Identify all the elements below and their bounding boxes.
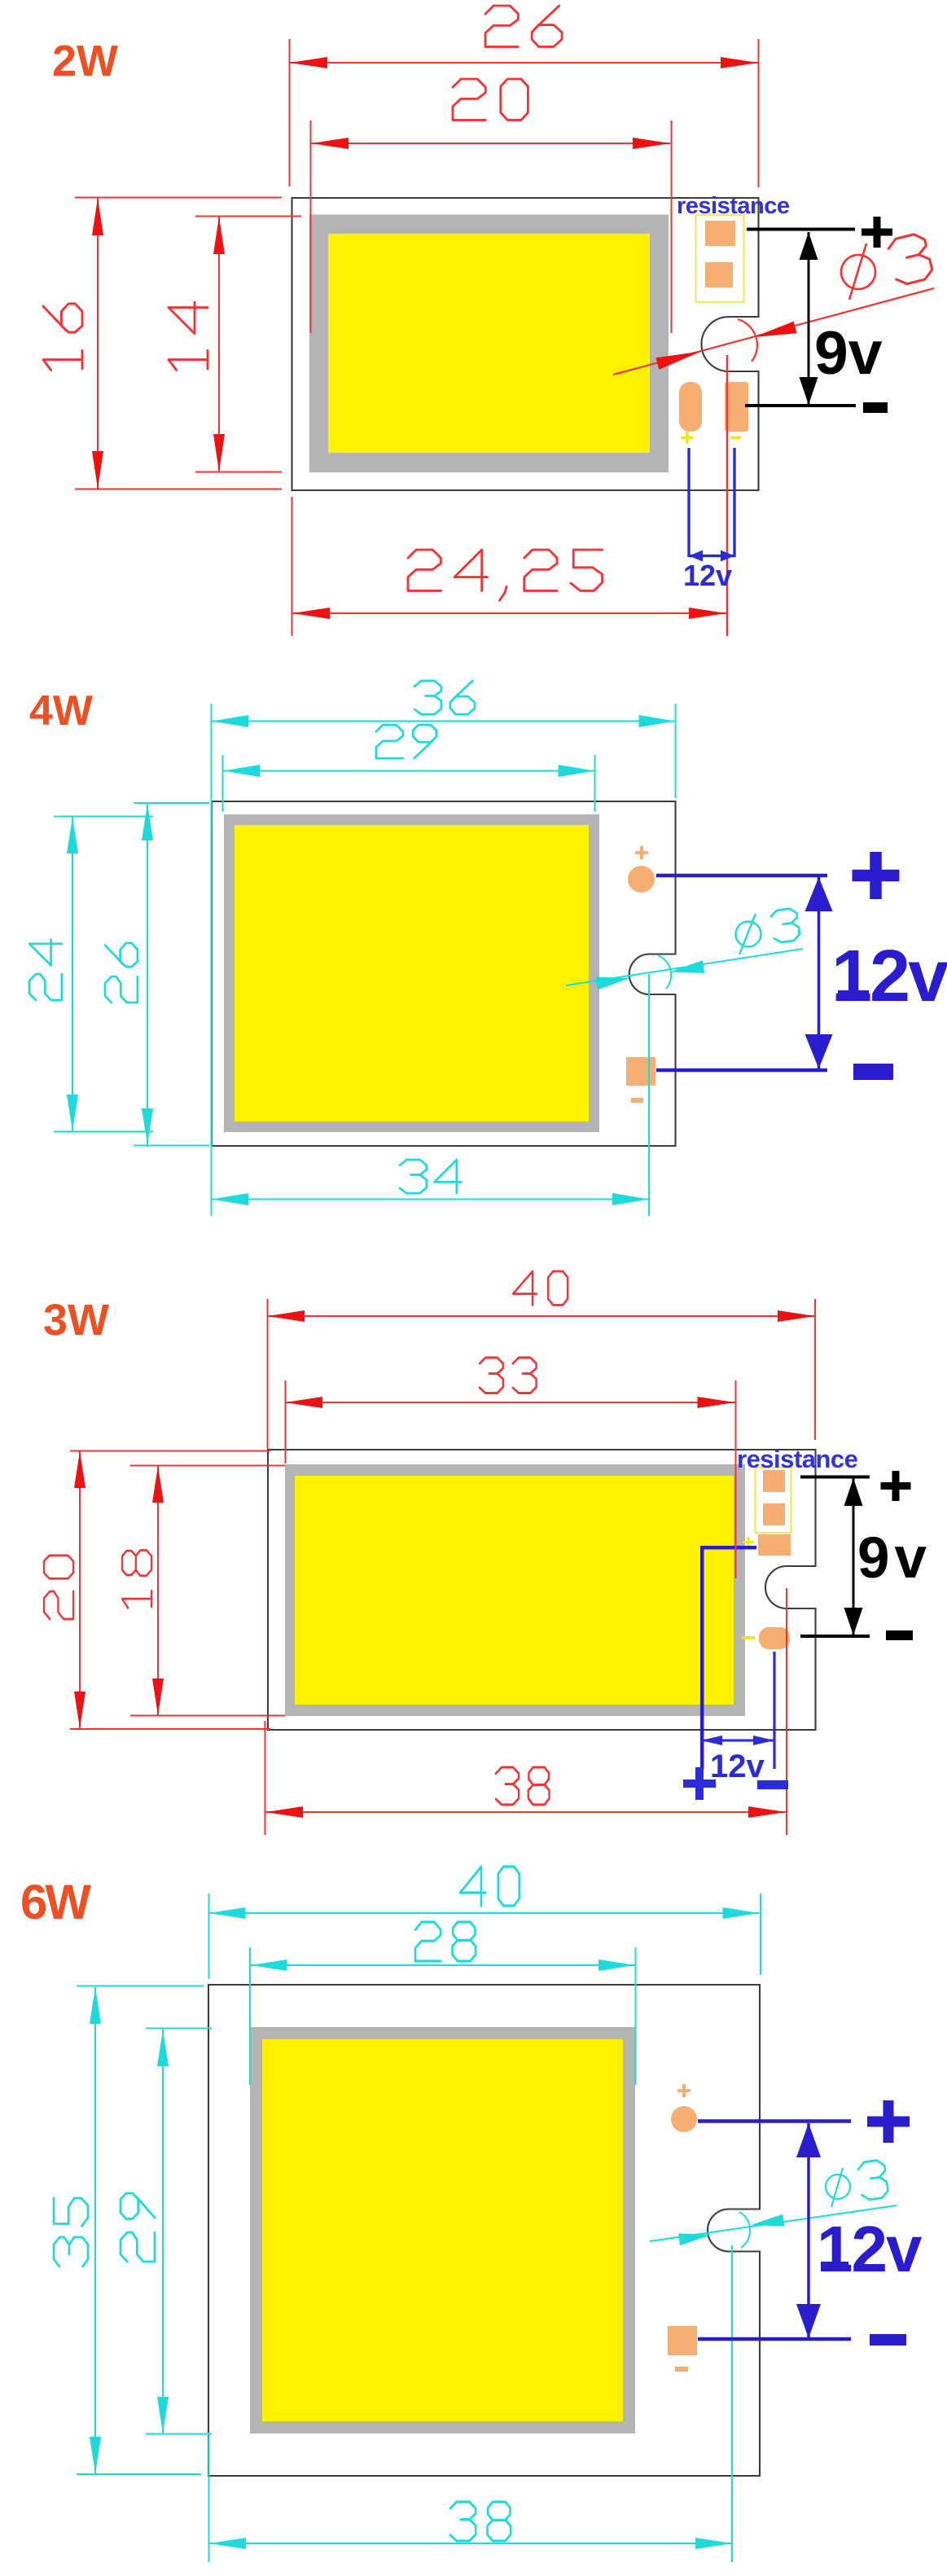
minus symbol 9v — [863, 402, 888, 413]
cathode square pad 6W — [668, 2326, 697, 2355]
svg-text:4W: 4W — [29, 687, 94, 735]
phi3 leader line (cyan) — [566, 949, 803, 985]
dimension 24 line arrows — [67, 817, 78, 854]
wire - (4W) — [656, 1069, 827, 1073]
phi3 red arc on notch — [738, 319, 757, 362]
wire - (6W) — [698, 2337, 851, 2341]
cathode square pad 4W — [626, 1057, 655, 1086]
gray emitting frame 3W — [285, 1464, 745, 1716]
dimension 26 text (4W) — [105, 943, 138, 1003]
dimension 35 line arrows — [90, 1987, 101, 2024]
body outline 6W with notch — [208, 1985, 760, 2476]
dimension 33 text — [480, 1358, 537, 1393]
9v dimension line (3W) arrows — [844, 1478, 863, 1506]
wire + (6W) — [698, 2119, 851, 2123]
9v wire - (3W) — [800, 1635, 870, 1638]
phi3 leader arrow right — [754, 322, 797, 337]
orange + mark 6W — [677, 2084, 691, 2097]
plus symbol 6W — [867, 2100, 910, 2143]
phi3 cyan arc on notch (6W) — [739, 2212, 750, 2248]
resistor pad R2 (3W) — [763, 1503, 785, 1525]
phi3 text (cyan) — [736, 914, 761, 954]
svg-text:resistance: resistance — [677, 193, 790, 219]
yellow + mark — [682, 432, 694, 444]
dimension 26 line arrows — [142, 804, 153, 840]
dimension 34 line — [212, 974, 649, 1216]
dimension 29 text — [376, 725, 436, 758]
resistor pad R1 — [705, 221, 735, 246]
dimension 18 line arrows — [152, 1466, 164, 1503]
dimension 26 line — [134, 803, 209, 1146]
dimension 14 line — [195, 217, 301, 472]
dimension 38 text (6W) — [450, 2502, 511, 2541]
svg-text:3W: 3W — [43, 1296, 109, 1345]
dimension 20 line — [311, 121, 672, 333]
dimension 20 line (3W) — [70, 1451, 270, 1730]
minus symbol 4W — [853, 1064, 893, 1080]
minus symbol (3W) — [886, 1630, 913, 1640]
12v extension lines (blue) — [689, 448, 734, 557]
minus symbol 6W — [870, 2334, 906, 2346]
orange + mark 4W — [635, 846, 648, 859]
9v wire + (3W) — [800, 1476, 870, 1479]
gray emitting frame 2W — [309, 215, 669, 473]
solder pad + (2W 12v) — [679, 382, 702, 432]
12v dimension arrows (3W) — [701, 1740, 774, 1742]
svg-text:12v: 12v — [831, 936, 947, 1017]
yellow phosphor area 3W — [295, 1476, 734, 1705]
dimension 29 line (6W) — [146, 2029, 212, 2434]
9v wire - (black) — [745, 404, 856, 407]
dimension 35 text — [54, 2198, 88, 2267]
resistance pads box 3W — [756, 1468, 791, 1533]
12v dimension line (6W) — [807, 2123, 810, 2338]
yellow + mark (3W) — [743, 1537, 754, 1547]
dimension 24 text — [29, 940, 62, 1000]
phi3 text (6W) — [826, 2168, 850, 2207]
dimension 26 text — [485, 6, 562, 46]
svg-text:6W: 6W — [20, 1875, 91, 1929]
dimension 26 arrows — [290, 57, 327, 68]
dimension 29 text (6W) — [121, 2193, 155, 2262]
dimension 16 text — [43, 304, 82, 371]
dimension 24 line — [54, 817, 153, 1132]
lower oval pad (3W) — [759, 1627, 790, 1649]
resistor pad R2 — [705, 262, 733, 287]
dimension 34 line arrows — [212, 1193, 248, 1205]
phi3 cyan arc on notch — [658, 955, 671, 989]
9v dimension line — [808, 232, 810, 405]
dimension 24,25 arrows — [292, 608, 330, 619]
orange - mark 4W — [631, 1098, 643, 1103]
yellow phosphor area 4W — [235, 825, 589, 1121]
body outline 2W with phi3 notch — [292, 198, 759, 490]
dimension 14 text — [169, 302, 208, 370]
12v dimension line (6W) arrows — [796, 2123, 821, 2157]
12v right extension (3W) — [773, 1652, 775, 1769]
phi3 text (red) — [841, 244, 875, 300]
dimension 20 text — [453, 79, 528, 120]
phi3 leader line (red) — [613, 288, 934, 375]
dimension 28 line arrows — [251, 1959, 287, 1971]
phi3 leader arrow left — [656, 352, 702, 370]
9v dimension line arrows — [800, 232, 818, 260]
svg-text:9v: 9v — [857, 1526, 932, 1591]
dimension 33 line — [286, 1380, 736, 1578]
svg-text:12v: 12v — [710, 1749, 765, 1784]
yellow phosphor area 2W — [328, 234, 650, 453]
dimension 40 line (6W) — [209, 1894, 761, 1979]
blue plus symbol (3W) — [683, 1767, 716, 1800]
body outline 4W with notch — [212, 801, 676, 1146]
dimension 24,25 text — [408, 550, 603, 600]
dimension 28 text — [415, 1922, 476, 1961]
svg-text:12v: 12v — [683, 559, 732, 592]
wire + (4W) — [656, 874, 827, 878]
dimension 40 text (6W) — [460, 1867, 520, 1906]
body outline 3W with notch — [268, 1450, 816, 1730]
svg-text:12v: 12v — [817, 2213, 923, 2285]
svg-text:9v: 9v — [814, 318, 883, 387]
dimension 40 line arrows — [268, 1310, 305, 1322]
dimension 38 line (3W) arrows — [265, 1806, 303, 1818]
dimension 35 line — [77, 1986, 204, 2475]
plus symbol 9v — [862, 217, 892, 248]
dimension 16 arrows — [92, 198, 103, 235]
dimension 38 line (3W) — [265, 1588, 787, 1835]
dimension 20 text (3W) — [44, 1556, 73, 1619]
dimension 38 line (6W) arrows — [209, 2538, 246, 2549]
9v wire + (black) — [747, 228, 855, 231]
12v dimension line (4W) — [818, 877, 821, 1069]
yellow - mark — [730, 437, 741, 440]
dimension 40 line (6W) arrows — [209, 1907, 246, 1919]
dimension 28 line — [250, 1947, 636, 2085]
orange - mark 6W — [675, 2367, 688, 2372]
dimension 18 text — [122, 1550, 151, 1608]
dimension 18 line — [130, 1466, 285, 1716]
anode dot pad 4W — [628, 866, 655, 893]
resistor pad R1 (3W) — [763, 1470, 785, 1492]
gray emitting frame 6W — [250, 2027, 635, 2433]
svg-text:resistance: resistance — [737, 1445, 858, 1473]
12v dimension arrows (3W) arrows — [701, 1736, 722, 1745]
dimension 26 line — [290, 39, 759, 187]
plus symbol (3W) — [881, 1471, 911, 1501]
plus symbol 4W — [853, 852, 900, 899]
dimension 29 line (6W) arrows — [157, 2030, 169, 2066]
resistance pads box 2W — [696, 215, 744, 302]
dimension 36 line arrows — [212, 715, 248, 727]
dimension 14 arrows — [213, 217, 225, 254]
12v arrows — [689, 551, 703, 562]
phi3 leader arrow right — [670, 960, 705, 973]
dimension 20 arrows — [311, 138, 349, 149]
dimension 16 line — [75, 198, 282, 489]
12v dimension line (4W) arrows — [805, 877, 833, 911]
dimension 34 text — [400, 1160, 461, 1193]
blue minus symbol (3W) — [757, 1780, 788, 1789]
phi3 leader arrow left — [595, 977, 630, 990]
yellow - mark (3W) — [742, 1636, 755, 1639]
dimension 20 line (3W) arrows — [74, 1451, 85, 1488]
phi3 leader arrow right (6W) — [752, 2214, 785, 2227]
yellow phosphor area 6W — [262, 2039, 623, 2421]
dimension 29 line arrows — [223, 765, 260, 777]
9v dimension line (3W) — [853, 1478, 855, 1635]
dimension 36 line — [212, 704, 676, 1216]
dimension 36 text — [414, 681, 475, 714]
solder pad - (2W 12v) — [725, 382, 748, 432]
dimension 29 line — [223, 755, 595, 812]
svg-text:2W: 2W — [52, 37, 118, 86]
dimension 38 line (6W) — [209, 2245, 733, 2562]
anode dot pad 6W — [671, 2106, 697, 2132]
dimension 33 line arrows — [286, 1397, 323, 1408]
blue trace wire (3W) — [702, 1547, 756, 1769]
dimension 40 line — [268, 1299, 816, 1449]
phi3 leader arrow left (6W) — [678, 2233, 712, 2245]
phi3 leader line (6W) — [650, 2205, 897, 2241]
dimension 38 text (3W) — [496, 1767, 550, 1805]
dimension 40 text — [513, 1271, 568, 1305]
gray emitting frame 4W — [224, 814, 599, 1132]
resistor pad R3 (3W) — [758, 1534, 791, 1556]
dimension 24,25 line — [292, 355, 728, 636]
